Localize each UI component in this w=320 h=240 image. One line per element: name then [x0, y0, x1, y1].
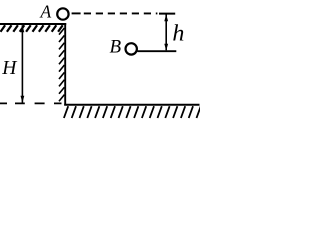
cliff wall hatching	[59, 28, 64, 101]
lower-level dashed line	[0, 102, 62, 104]
H arrowhead down	[21, 96, 25, 103]
cliff top hatching	[1, 25, 63, 32]
h arrowhead up	[164, 14, 168, 21]
rod line from ball B	[138, 50, 177, 52]
H dimension arrow shaft	[21, 25, 23, 102]
svg-text:h: h	[172, 21, 184, 46]
svg-text:B: B	[110, 37, 122, 58]
cliff top surface	[0, 23, 66, 25]
h dimension top tick	[159, 13, 175, 15]
svg-text:A: A	[40, 2, 52, 22]
h dimension arrow shaft	[165, 14, 167, 50]
lower ground hatching	[64, 106, 201, 118]
cliff wall	[64, 23, 66, 106]
h arrowhead down	[164, 44, 168, 51]
ball A	[57, 8, 68, 19]
H arrowhead up	[21, 25, 25, 32]
trajectory dashed line	[84, 12, 158, 14]
trajectory stub from ball A	[72, 12, 81, 14]
svg-text:H: H	[1, 58, 18, 79]
lower ground surface	[64, 104, 199, 106]
ball B	[126, 43, 137, 54]
